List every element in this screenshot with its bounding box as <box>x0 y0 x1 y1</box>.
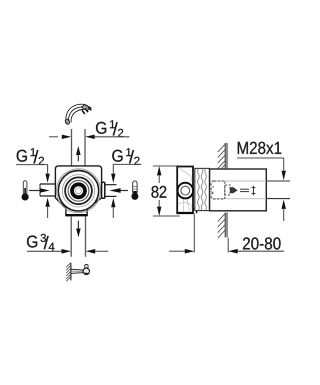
M28 tube lines <box>266 181 290 199</box>
label G 3/4 <box>27 234 54 251</box>
82 dimension arrows <box>157 166 161 216</box>
sleeve <box>210 169 267 211</box>
wall upper segment <box>218 143 227 169</box>
left flow arrow <box>29 188 50 193</box>
main front circle <box>58 171 98 211</box>
leader M28x1 <box>237 158 286 180</box>
valve body octagon (front view) <box>55 166 101 215</box>
sleeve bore lines <box>210 181 266 199</box>
faint ring r16.2 <box>62 175 94 207</box>
side body bottom step <box>193 209 197 213</box>
ring r10.4 <box>68 180 89 201</box>
label G 1/2 left <box>17 148 44 165</box>
up arrow below right port <box>111 198 115 218</box>
leader G1/2 right <box>111 164 141 183</box>
up arrow below left port <box>45 198 49 218</box>
20-80 extension lines <box>194 214 228 253</box>
up arrow below tube <box>282 200 286 222</box>
bath spout icon <box>66 263 89 282</box>
spindle tip <box>230 187 238 194</box>
side body thick bottom <box>177 212 194 214</box>
body chamfer circle (gray) <box>57 169 101 213</box>
82 extension lines <box>153 166 180 216</box>
label 82 <box>151 186 166 198</box>
side body block <box>177 167 193 214</box>
dimension G3/4 bottom <box>27 249 108 254</box>
right port tube <box>105 185 117 197</box>
label M28x1 <box>238 142 282 154</box>
spindle shaft dashes <box>240 186 255 195</box>
wall lower segment <box>218 213 227 239</box>
side body interior curves <box>178 168 192 212</box>
cartridge (hidden lines) <box>211 181 230 199</box>
side port circle <box>178 183 194 199</box>
label G 1/2 top <box>96 120 123 137</box>
label 20-80 <box>243 237 281 249</box>
20-80 dimension arrows <box>169 249 284 254</box>
threaded collar <box>195 168 210 210</box>
center faint ring <box>76 188 82 194</box>
bottom pipe <box>71 216 85 257</box>
ring r13.4 <box>65 177 92 204</box>
dimension line top G1/2 <box>49 135 130 139</box>
up flow arrow in top pipe <box>76 146 81 161</box>
right flow arrow <box>109 188 128 193</box>
leader G1/2 left <box>16 165 50 183</box>
cold thermometer <box>22 181 29 201</box>
center donut <box>72 184 85 197</box>
label G 1/2 right <box>112 148 139 165</box>
top pipe <box>72 129 86 166</box>
hand shower icon <box>64 104 91 125</box>
left port tube <box>40 184 55 196</box>
down flow arrow in bottom pipe <box>76 221 81 238</box>
hot thermometer <box>131 181 138 200</box>
bottom stub thick edge <box>65 214 87 216</box>
right port collar <box>102 182 105 198</box>
